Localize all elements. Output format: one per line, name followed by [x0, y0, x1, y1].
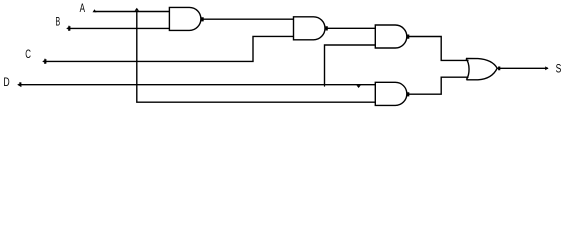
- junction marker on D wire: [356, 85, 360, 88]
- wire input D: [20, 84, 376, 86]
- pin marker U2 output: [325, 27, 327, 30]
- terminal marker C: [42, 59, 46, 64]
- junction node A-branch: [135, 8, 139, 11]
- pin marker U5 output: [499, 67, 500, 70]
- wire branch A down: [137, 12, 375, 103]
- terminal marker D: [17, 82, 21, 87]
- terminal marker A: [93, 9, 97, 12]
- wire input C: [45, 36, 294, 61]
- svg-text:S: S: [556, 61, 562, 75]
- and-gate U4: [375, 82, 407, 105]
- and-gate U1: [169, 7, 201, 30]
- and-gate U3: [375, 25, 407, 48]
- wire input B: [69, 27, 170, 29]
- junction node D-tap: [324, 85, 325, 87]
- wire input A: [95, 11, 170, 13]
- wire D tap to U3: [325, 45, 376, 85]
- or-gate U5: [466, 59, 497, 80]
- svg-text:C: C: [25, 47, 31, 61]
- svg-text:A: A: [80, 1, 85, 15]
- terminal marker B: [66, 26, 70, 31]
- pin marker U4 output: [407, 93, 409, 96]
- svg-text:D: D: [3, 75, 9, 89]
- svg-text:B: B: [56, 14, 61, 28]
- wire U1 output: [201, 18, 294, 20]
- wire output S: [497, 67, 548, 69]
- wire U4 output to OR: [407, 77, 469, 94]
- pin marker U1 output: [201, 18, 203, 21]
- wire U2 output: [325, 27, 375, 29]
- and-gate U2: [294, 17, 326, 40]
- pin marker U3 output: [407, 35, 409, 38]
- terminal marker S: [545, 66, 548, 70]
- wire U3 output to OR: [407, 37, 469, 61]
